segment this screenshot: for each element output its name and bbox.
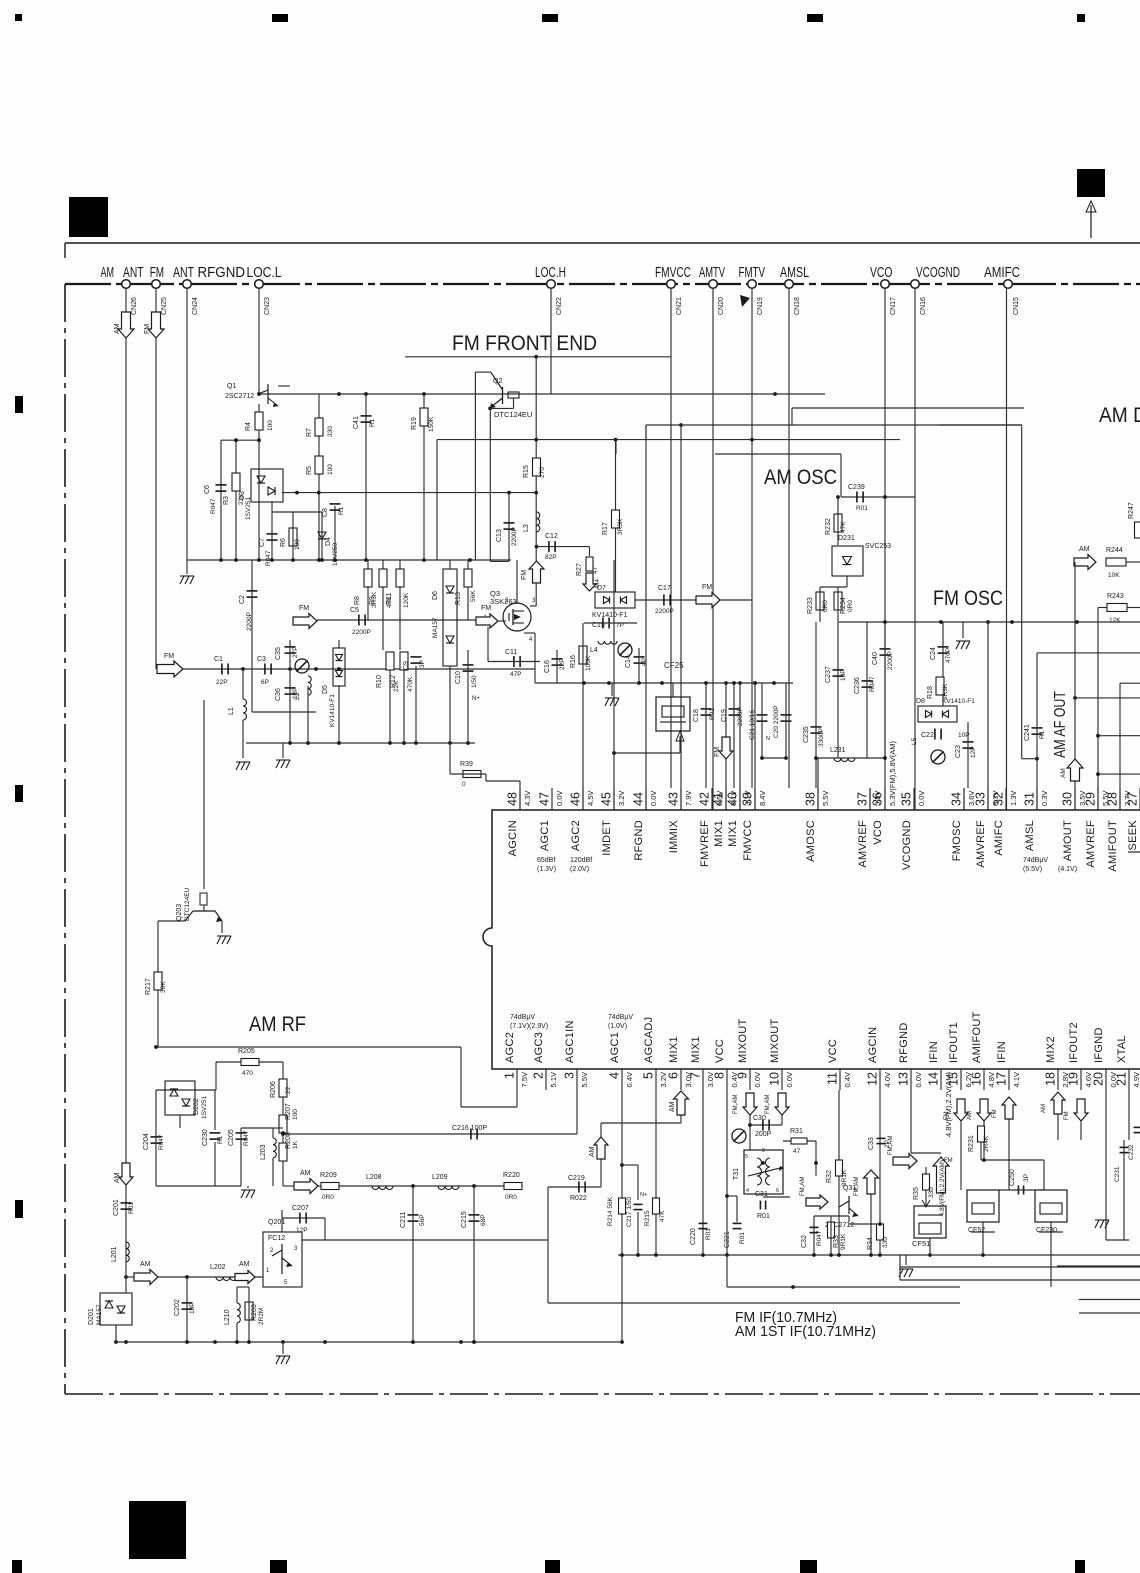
svg-text:2: 2 — [532, 1072, 546, 1079]
svg-text:7.5V: 7.5V — [520, 1072, 529, 1087]
svg-text:AGC1: AGC1 — [609, 1032, 621, 1063]
svg-text:CN16: CN16 — [920, 297, 927, 315]
svg-text:IMDET: IMDET — [601, 820, 613, 856]
svg-text:AMVREF: AMVREF — [975, 820, 987, 868]
svg-text:22P: 22P — [559, 658, 566, 670]
svg-text:L208: L208 — [366, 1174, 382, 1181]
svg-text:L5: L5 — [911, 737, 918, 745]
svg-text:42: 42 — [698, 792, 712, 806]
svg-text:C236: C236 — [854, 677, 861, 694]
svg-text:74dBμV: 74dBμV — [1023, 857, 1048, 864]
svg-text:0.4V: 0.4V — [625, 1072, 634, 1087]
svg-text:R047: R047 — [243, 1130, 250, 1146]
svg-text:4P: 4P — [641, 658, 648, 666]
svg-text:36: 36 — [871, 792, 885, 806]
svg-text:16: 16 — [970, 1072, 984, 1086]
svg-text:CN22: CN22 — [556, 297, 563, 315]
svg-text:AM: AM — [140, 1261, 151, 1268]
svg-text:2200P: 2200P — [511, 527, 518, 546]
svg-text:SEEK: SEEK — [1127, 820, 1139, 851]
svg-text:Q203: Q203 — [176, 904, 183, 921]
svg-text:AM: AM — [300, 1170, 311, 1177]
svg-text:46: 46 — [569, 792, 583, 806]
svg-text:VCC: VCC — [827, 1039, 839, 1063]
svg-text:C2: C2 — [239, 595, 246, 604]
svg-text:0.0V: 0.0V — [555, 791, 564, 806]
svg-text:R206: R206 — [270, 1081, 277, 1098]
svg-text:47P: 47P — [510, 671, 522, 678]
svg-text:C18: C18 — [693, 709, 700, 722]
svg-text:2P: 2P — [884, 1140, 891, 1148]
svg-text:AM: AM — [669, 1101, 676, 1112]
svg-text:VCOGND: VCOGND — [901, 820, 913, 870]
svg-text:CF51: CF51 — [912, 1239, 930, 1248]
svg-text:C202: C202 — [174, 1299, 181, 1316]
svg-text:XTAL: XTAL — [1116, 1035, 1128, 1063]
svg-text:L202: L202 — [210, 1264, 226, 1271]
svg-text:R022: R022 — [570, 1195, 587, 1202]
svg-text:R27: R27 — [576, 563, 583, 576]
svg-text:AM: AM — [967, 1111, 973, 1120]
svg-text:IFOUT2: IFOUT2 — [1068, 1022, 1080, 1063]
svg-text:L210: L210 — [224, 1309, 231, 1325]
svg-text:9R1K: 9R1K — [840, 1233, 847, 1250]
svg-text:470K: 470K — [407, 676, 414, 692]
svg-text:N: N — [766, 736, 770, 742]
svg-text:120dBf: 120dBf — [570, 857, 592, 864]
svg-text:8: 8 — [713, 1072, 727, 1079]
svg-text:R217: R217 — [145, 978, 152, 995]
svg-text:ANT: ANT — [123, 265, 144, 281]
svg-text:FM: FM — [299, 605, 309, 612]
svg-text:15: 15 — [947, 1072, 961, 1086]
svg-text:R047: R047 — [210, 498, 217, 514]
svg-text:C9: C9 — [403, 661, 410, 670]
svg-text:R01: R01 — [709, 708, 716, 720]
svg-text:VCC: VCC — [714, 1039, 726, 1063]
svg-text:C220: C220 — [690, 1228, 697, 1245]
svg-text:CN24: CN24 — [192, 297, 199, 315]
svg-text:R047: R047 — [158, 1134, 165, 1150]
svg-text:4.8V(FM),2.2V(AM): 4.8V(FM),2.2V(AM) — [939, 1160, 946, 1216]
svg-text:(1.3V): (1.3V) — [537, 866, 556, 873]
svg-text:L4: L4 — [590, 647, 598, 654]
svg-text:MIXOUT: MIXOUT — [769, 1018, 781, 1063]
svg-text:R1: R1 — [217, 1135, 224, 1144]
svg-text:CN15: CN15 — [1013, 297, 1020, 315]
svg-text:2200P: 2200P — [352, 629, 371, 636]
svg-text:4: 4 — [746, 1188, 749, 1194]
svg-text:MIX2: MIX2 — [1045, 1036, 1057, 1063]
svg-text:12: 12 — [866, 1072, 880, 1086]
svg-text:8.4V: 8.4V — [758, 791, 767, 806]
svg-text:27: 27 — [1126, 792, 1140, 806]
svg-text:100K: 100K — [585, 655, 592, 671]
svg-text:D6: D6 — [432, 591, 439, 600]
svg-text:D231: D231 — [838, 535, 855, 542]
svg-text:D8: D8 — [916, 698, 925, 705]
svg-text:R18: R18 — [927, 686, 934, 699]
svg-text:AMOUT: AMOUT — [1062, 820, 1074, 861]
svg-text:CN20: CN20 — [718, 297, 725, 315]
svg-text:C31: C31 — [755, 1191, 768, 1198]
svg-text:FMVCC: FMVCC — [742, 820, 754, 861]
svg-text:22: 22 — [285, 1086, 292, 1094]
svg-text:D201: D201 — [88, 1308, 95, 1325]
svg-text:0.0V: 0.0V — [914, 1072, 923, 1087]
svg-text:C13: C13 — [496, 529, 503, 542]
svg-text:SVC253: SVC253 — [865, 543, 891, 550]
svg-text:5.1V: 5.1V — [549, 1072, 558, 1087]
svg-text:R01: R01 — [128, 1202, 135, 1214]
svg-text:AGC1IN: AGC1IN — [564, 1020, 576, 1063]
svg-text:6P: 6P — [261, 679, 269, 686]
svg-text:3R3K: 3R3K — [617, 518, 624, 535]
svg-text:330: 330 — [928, 1187, 935, 1198]
svg-text:R8: R8 — [354, 596, 361, 605]
svg-text:470P: 470P — [945, 648, 952, 663]
svg-text:3SK263: 3SK263 — [490, 597, 517, 606]
svg-text:C11: C11 — [505, 649, 517, 656]
svg-text:5: 5 — [642, 1072, 656, 1079]
svg-text:28: 28 — [1106, 792, 1120, 806]
svg-text:22K: 22K — [238, 493, 245, 505]
svg-text:DTC124EU: DTC124EU — [494, 410, 532, 419]
svg-text:AM: AM — [239, 1261, 250, 1268]
svg-text:C40: C40 — [872, 652, 879, 665]
svg-text:Q1: Q1 — [227, 383, 236, 390]
svg-text:4.9V: 4.9V — [1132, 1072, 1140, 1087]
svg-text:KV1410-F1: KV1410-F1 — [329, 694, 336, 727]
svg-text:0R0: 0R0 — [322, 1194, 334, 1201]
svg-text:56K: 56K — [470, 590, 477, 602]
svg-text:270: 270 — [539, 467, 546, 478]
svg-text:5.5V: 5.5V — [821, 791, 830, 806]
svg-text:R35: R35 — [913, 1187, 920, 1200]
svg-text:FM: FM — [702, 584, 712, 591]
svg-text:22P: 22P — [216, 679, 228, 686]
svg-text:IFIN: IFIN — [928, 1041, 940, 1063]
svg-text:FMTV: FMTV — [739, 265, 766, 281]
svg-text:4: 4 — [608, 1072, 622, 1079]
svg-text:0.0V: 0.0V — [917, 791, 926, 806]
svg-text:AM RF: AM RF — [249, 1013, 306, 1036]
svg-text:R6: R6 — [280, 538, 287, 547]
svg-text:AGC1: AGC1 — [539, 820, 551, 851]
svg-text:CN17: CN17 — [890, 297, 897, 315]
svg-text:27P: 27P — [292, 646, 299, 658]
svg-text:FMOSC: FMOSC — [951, 820, 963, 861]
svg-text:30: 30 — [1061, 792, 1075, 806]
svg-text:C237: C237 — [825, 666, 832, 683]
svg-text:R3: R3 — [223, 496, 230, 505]
svg-text:L231: L231 — [830, 747, 846, 754]
svg-text:RFGND: RFGND — [898, 1022, 910, 1063]
svg-text:FM: FM — [714, 747, 721, 757]
svg-text:R243: R243 — [1107, 593, 1124, 600]
svg-text:1SV251: 1SV251 — [245, 496, 252, 520]
svg-text:D5: D5 — [322, 685, 329, 694]
svg-text:C232: C232 — [1128, 1144, 1135, 1160]
svg-text:44: 44 — [632, 792, 646, 806]
svg-text:18: 18 — [1044, 1072, 1058, 1086]
svg-text:39K: 39K — [160, 981, 167, 993]
svg-text:R39: R39 — [460, 761, 473, 768]
svg-text:C250: C250 — [1009, 1169, 1016, 1186]
svg-text:FM,AM: FM,AM — [765, 1095, 771, 1114]
svg-text:13: 13 — [897, 1072, 911, 1086]
svg-text:0.0V: 0.0V — [785, 1072, 794, 1087]
svg-text:48: 48 — [506, 792, 520, 806]
svg-text:6: 6 — [667, 1072, 681, 1079]
svg-text:CF25: CF25 — [664, 661, 684, 670]
svg-text:CN23: CN23 — [264, 297, 271, 315]
svg-text:AM: AM — [589, 1146, 596, 1157]
svg-text:R234: R234 — [840, 597, 847, 614]
svg-text:2200P: 2200P — [887, 651, 894, 670]
svg-text:31: 31 — [1023, 792, 1037, 806]
svg-text:FM OSC: FM OSC — [933, 587, 1003, 610]
svg-text:AMOSC: AMOSC — [805, 820, 817, 862]
svg-text:9R1K: 9R1K — [841, 1169, 848, 1186]
svg-text:T31: T31 — [733, 1168, 740, 1180]
svg-text:39: 39 — [741, 792, 755, 806]
svg-text:C21 10/16: C21 10/16 — [749, 710, 756, 740]
svg-text:L203: L203 — [260, 1144, 267, 1160]
svg-text:11: 11 — [826, 1072, 840, 1085]
svg-text:C216 100P: C216 100P — [452, 1125, 487, 1132]
svg-text:IFIN: IFIN — [996, 1041, 1008, 1063]
svg-text:IFOUT1: IFOUT1 — [948, 1022, 960, 1063]
svg-text:45: 45 — [600, 792, 614, 806]
svg-text:R231: R231 — [968, 1135, 975, 1152]
svg-text:34: 34 — [950, 792, 964, 806]
svg-text:C17: C17 — [658, 585, 671, 592]
svg-text:20: 20 — [1092, 1072, 1106, 1086]
svg-text:C5: C5 — [350, 607, 359, 614]
svg-text:0.0V: 0.0V — [753, 1072, 762, 1087]
svg-text:IFGND: IFGND — [1093, 1027, 1105, 1063]
svg-text:0.0V: 0.0V — [649, 791, 658, 806]
svg-text:LOC.H: LOC.H — [535, 265, 566, 281]
svg-text:R208: R208 — [285, 1132, 292, 1149]
svg-text:AMTV: AMTV — [699, 265, 725, 281]
svg-text:2R2M: 2R2M — [258, 1308, 265, 1325]
svg-text:CF230: CF230 — [1036, 1227, 1057, 1234]
svg-text:C211: C211 — [400, 1212, 407, 1228]
svg-text:4.0V: 4.0V — [883, 1072, 892, 1087]
svg-text:C3: C3 — [257, 656, 266, 663]
svg-text:Q201: Q201 — [268, 1219, 285, 1226]
svg-text:FC12: FC12 — [268, 1235, 285, 1242]
svg-text:5: 5 — [745, 1154, 748, 1160]
svg-text:C8: C8 — [322, 508, 329, 517]
svg-text:3: 3 — [563, 1072, 577, 1079]
svg-text:L3: L3 — [523, 524, 530, 532]
svg-text:RFGND: RFGND — [633, 820, 645, 861]
svg-text:C23: C23 — [955, 745, 962, 758]
svg-text:3P: 3P — [1023, 1174, 1030, 1182]
svg-text:2200P: 2200P — [737, 707, 744, 726]
svg-text:R215: R215 — [644, 1210, 651, 1226]
svg-text:56P: 56P — [419, 1214, 426, 1226]
svg-text:FM: FM — [944, 1111, 950, 1120]
svg-text:VCOGND: VCOGND — [916, 265, 960, 281]
svg-text:19: 19 — [1067, 1072, 1081, 1086]
svg-text:R047: R047 — [816, 1230, 823, 1246]
svg-text:C241: C241 — [1024, 724, 1031, 741]
svg-text:R7: R7 — [306, 428, 313, 437]
svg-text:C7: C7 — [259, 538, 266, 547]
svg-text:N+: N+ — [640, 1192, 647, 1198]
svg-text:R1: R1 — [338, 506, 345, 515]
svg-text:R220: R220 — [503, 1172, 520, 1179]
svg-text:C30: C30 — [753, 1115, 766, 1122]
svg-text:C20 2200P: C20 2200P — [773, 705, 780, 738]
svg-text:C35: C35 — [275, 647, 282, 660]
svg-text:R01: R01 — [739, 1232, 746, 1244]
svg-text:21: 21 — [1115, 1072, 1129, 1086]
svg-text:3.2V: 3.2V — [617, 791, 626, 806]
svg-text:100: 100 — [327, 464, 334, 475]
svg-text:FM: FM — [481, 605, 491, 612]
svg-text:R10: R10 — [376, 675, 383, 688]
svg-text:17: 17 — [995, 1072, 1009, 1086]
svg-text:35: 35 — [900, 792, 914, 806]
svg-text:MIX1: MIX1 — [713, 820, 725, 847]
svg-text:R209: R209 — [320, 1172, 337, 1179]
svg-text:100: 100 — [292, 1109, 299, 1120]
svg-text:(2.0V): (2.0V) — [570, 866, 589, 873]
svg-text:4.5V: 4.5V — [586, 791, 595, 806]
svg-text:FM FRONT END: FM FRONT END — [452, 332, 597, 355]
svg-text:10P: 10P — [840, 669, 847, 681]
svg-text:38: 38 — [804, 792, 818, 806]
svg-text:MIX1: MIX1 — [727, 820, 739, 847]
svg-text:C204: C204 — [143, 1133, 150, 1150]
svg-text:D202: D202 — [193, 1098, 200, 1115]
svg-text:R16: R16 — [570, 655, 577, 668]
svg-text:1.3V: 1.3V — [1009, 791, 1018, 806]
svg-text:L209: L209 — [432, 1174, 448, 1181]
svg-text:FM: FM — [992, 1109, 998, 1118]
svg-text:MIX1: MIX1 — [668, 1036, 680, 1063]
svg-text:CN18: CN18 — [794, 297, 801, 315]
svg-text:R17: R17 — [602, 522, 609, 535]
svg-text:R232: R232 — [825, 518, 832, 535]
svg-text:CN26: CN26 — [131, 297, 138, 315]
svg-text:FM,AM: FM,AM — [800, 1177, 806, 1196]
svg-text:FMVCC: FMVCC — [655, 265, 691, 281]
svg-text:R244: R244 — [1106, 547, 1123, 554]
svg-text:2SC2712: 2SC2712 — [225, 393, 254, 400]
svg-text:37: 37 — [856, 792, 870, 806]
svg-text:200P: 200P — [755, 1131, 772, 1138]
svg-text:C10: C10 — [455, 671, 462, 684]
svg-text:VCO: VCO — [870, 265, 893, 281]
svg-text:R19: R19 — [411, 417, 418, 430]
svg-text:1SV251: 1SV251 — [201, 1095, 208, 1119]
svg-text:R047: R047 — [869, 676, 876, 692]
svg-text:2R4K: 2R4K — [983, 1135, 990, 1152]
svg-text:(1.0V): (1.0V) — [608, 1023, 627, 1030]
svg-text:2: 2 — [762, 1148, 765, 1154]
svg-text:R1: R1 — [369, 418, 376, 427]
svg-text:C231: C231 — [1114, 1166, 1121, 1182]
svg-text:68P: 68P — [480, 1214, 487, 1226]
svg-text:FM,AM: FM,AM — [733, 1095, 739, 1114]
svg-text:R9: R9 — [369, 596, 376, 605]
svg-text:C14: C14 — [625, 655, 632, 668]
svg-text:R12: R12 — [390, 675, 397, 688]
svg-text:6: 6 — [776, 1188, 779, 1194]
svg-text:FM: FM — [150, 265, 164, 281]
svg-text:47K: 47K — [659, 1210, 666, 1222]
svg-text:2200P: 2200P — [655, 608, 674, 615]
svg-text:N+: N+ — [472, 696, 480, 702]
svg-text:KV1410-F1: KV1410-F1 — [942, 698, 975, 705]
svg-text:R01: R01 — [705, 1228, 712, 1240]
svg-text:C32: C32 — [801, 1235, 808, 1248]
svg-text:47: 47 — [793, 1148, 801, 1155]
svg-text:47K: 47K — [840, 521, 847, 533]
svg-text:7.9V: 7.9V — [684, 791, 693, 806]
svg-text:AGC3: AGC3 — [533, 1032, 545, 1063]
svg-text:100: 100 — [267, 420, 274, 431]
svg-text:(4.1V): (4.1V) — [1058, 866, 1077, 873]
svg-text:AGC2: AGC2 — [570, 820, 582, 851]
svg-text:470: 470 — [242, 1070, 253, 1077]
svg-text:41: 41 — [712, 792, 726, 806]
svg-text:C1: C1 — [214, 656, 223, 663]
svg-text:330: 330 — [327, 426, 334, 437]
svg-text:1: 1 — [503, 1072, 517, 1079]
svg-text:33: 33 — [974, 792, 988, 806]
svg-text:C22: C22 — [921, 732, 934, 739]
svg-text:AMSL: AMSL — [780, 265, 809, 281]
svg-text:12K: 12K — [1109, 617, 1121, 624]
svg-text:FM: FM — [521, 570, 528, 580]
svg-text:R047: R047 — [265, 550, 272, 566]
svg-text:1/50: 1/50 — [471, 675, 478, 688]
svg-text:AM: AM — [114, 323, 121, 334]
svg-text:R203: R203 — [251, 1304, 258, 1321]
svg-text:4.3V: 4.3V — [523, 791, 532, 806]
svg-text:ANT: ANT — [173, 265, 194, 281]
svg-text:CN19: CN19 — [757, 297, 764, 315]
svg-text:10: 10 — [768, 1072, 782, 1086]
svg-text:1K: 1K — [292, 1140, 299, 1149]
svg-text:40: 40 — [726, 792, 740, 806]
svg-text:R5: R5 — [306, 466, 313, 475]
svg-text:AGCIN: AGCIN — [507, 820, 519, 856]
svg-text:AMVREF: AMVREF — [857, 820, 869, 868]
svg-text:DTC124EU: DTC124EU — [184, 887, 191, 921]
svg-text:CN25: CN25 — [161, 297, 168, 315]
svg-text:AM: AM — [101, 265, 115, 281]
svg-text:AGC2: AGC2 — [504, 1032, 516, 1063]
svg-text:C239: C239 — [848, 484, 865, 491]
svg-text:AMVREF: AMVREF — [1085, 820, 1097, 868]
svg-text:FM: FM — [1064, 1111, 1070, 1120]
svg-text:AM: AM — [1079, 546, 1090, 553]
svg-text:10K: 10K — [1108, 572, 1120, 579]
svg-text:CN21: CN21 — [676, 297, 683, 315]
svg-text:65dBf: 65dBf — [537, 857, 555, 864]
svg-text:FMVREF: FMVREF — [699, 820, 711, 867]
svg-text:AM: AM — [114, 1172, 121, 1183]
svg-text:R1: R1 — [1039, 730, 1046, 739]
